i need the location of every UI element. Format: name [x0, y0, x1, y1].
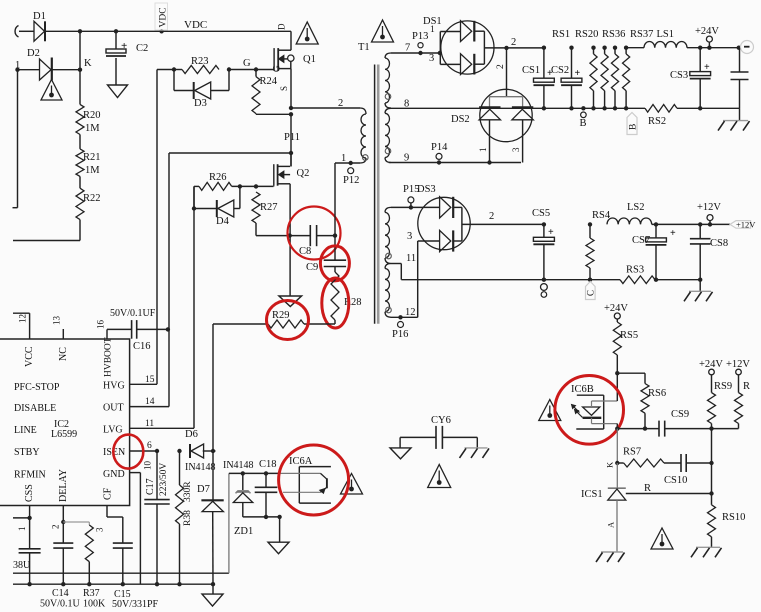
ground left of CY6: [399, 437, 401, 448]
wire ISEN branch riser x=229: [228, 473, 230, 573]
svg-text:100K: 100K: [83, 599, 106, 610]
net tag +24V right (clipped): [737, 46, 741, 50]
pin 2 DELAY: [62, 506, 64, 523]
svg-text:+: +: [670, 228, 676, 239]
capacitor C16 50V/0.1UF: [131, 320, 133, 339]
svg-text:K: K: [605, 461, 615, 468]
svg-text:CSS: CSS: [24, 484, 35, 502]
diode D3 (parallel R23): [173, 70, 175, 91]
svg-text:RS9: RS9: [714, 381, 732, 392]
svg-text:T1: T1: [358, 42, 370, 53]
resistor R37 100K: [88, 522, 90, 525]
svg-text:ICS1: ICS1: [581, 489, 603, 500]
ground triangle below rail: [212, 584, 214, 594]
svg-text:+12V: +12V: [726, 359, 750, 370]
svg-text:R38: R38: [183, 510, 193, 526]
resistor R26: [194, 185, 199, 187]
svg-text:CS5: CS5: [532, 208, 550, 219]
svg-text:11: 11: [145, 419, 154, 429]
node G: [254, 67, 258, 71]
svg-text:R23: R23: [191, 56, 209, 67]
svg-text:RS6: RS6: [648, 388, 666, 399]
resistor RS36: [613, 46, 617, 50]
capacitor C9: [324, 259, 346, 261]
resistor RS3 on return rail: [620, 276, 655, 284]
resistor RS7: [617, 462, 623, 464]
ground at top right rail: [739, 108, 741, 120]
resistor R24: [255, 70, 257, 77]
wire 2 to primary: [291, 107, 360, 109]
test point below CS5: [541, 284, 548, 291]
wire to RS6: [617, 372, 645, 374]
svg-text:B: B: [580, 118, 587, 129]
svg-text:DS3: DS3: [417, 184, 436, 195]
wire node1 row / D2 anode: [16, 69, 40, 71]
svg-text:VCC: VCC: [24, 346, 35, 367]
wire pin3 row to DS3: [391, 206, 440, 208]
secondary winding 8-9 of T1: [385, 108, 391, 113]
svg-text:GND: GND: [103, 469, 125, 480]
pin 16 HVBOOT: [106, 329, 108, 339]
resistor RS8: [736, 369, 742, 375]
svg-text:R: R: [743, 381, 750, 392]
resistor RS2 on B rail: [645, 105, 677, 113]
wire primary pin1 row: [335, 162, 360, 164]
wire R26 to Q2 gate: [232, 185, 256, 187]
wire pin1 riser to C8/C9: [334, 163, 336, 236]
diode D7: [212, 451, 214, 500]
svg-text:C: C: [586, 290, 596, 296]
svg-text:15: 15: [145, 375, 155, 385]
svg-text:3: 3: [429, 53, 434, 64]
ground below C18: [279, 517, 281, 542]
svg-text:1: 1: [478, 148, 488, 153]
warning triangle bottom right: [651, 528, 673, 549]
svg-text:+24V: +24V: [699, 359, 723, 370]
wire pin12 row: [391, 316, 418, 318]
red circle around C8: [288, 207, 341, 260]
svg-text:B: B: [629, 124, 639, 130]
wire RS9 node down: [711, 429, 713, 505]
transistor Q2 (MOSFET): [290, 153, 292, 166]
node 2 (secondary rectified +24V input): [504, 46, 508, 50]
wire pin9 row: [389, 162, 521, 164]
wire R22 bottom stub: [79, 220, 81, 241]
warning triangle below CY6: [428, 465, 451, 488]
resistor RS1: [591, 46, 595, 50]
svg-text:RS10: RS10: [722, 512, 745, 523]
dual diode DS2: [480, 89, 532, 141]
svg-text:ZD1: ZD1: [234, 526, 253, 537]
svg-text:38U: 38U: [13, 560, 31, 571]
resistor RS10: [708, 505, 716, 537]
svg-text:D2: D2: [27, 48, 40, 59]
return rail pin11 to C node: [401, 279, 620, 281]
svg-text:C9: C9: [306, 262, 318, 273]
svg-text:IC6B: IC6B: [571, 384, 594, 395]
wire G to Q1 gate: [256, 69, 274, 71]
net tag B boxed: [627, 113, 637, 135]
capacitor C8: [309, 225, 311, 246]
svg-text:DISABLE: DISABLE: [14, 403, 56, 414]
wire ZD1/C18 row: [229, 472, 280, 474]
red ellipse around ISEN: [113, 435, 143, 469]
svg-text:3: 3: [511, 147, 521, 152]
svg-text:D7: D7: [197, 484, 210, 495]
svg-text:+24V: +24V: [604, 303, 628, 314]
node IC6B emitter row: [615, 426, 619, 430]
node junction top rail / R20 branch: [78, 29, 82, 33]
svg-text:6: 6: [147, 441, 152, 451]
svg-text:R20: R20: [83, 110, 101, 121]
svg-text:Q2: Q2: [297, 168, 310, 179]
svg-text:P13: P13: [412, 31, 428, 42]
wire R23 left junction: [157, 69, 174, 71]
svg-text:R: R: [644, 483, 651, 494]
wire node2 to output caps: [507, 47, 544, 49]
wire pin11 jog: [391, 263, 401, 265]
red ellipse around C9: [320, 246, 349, 281]
node CS10 right: [709, 461, 713, 465]
svg-text:CS9: CS9: [671, 409, 689, 420]
svg-text:IC6A: IC6A: [289, 456, 313, 467]
pin 3 CF: [106, 506, 108, 518]
ground below C2: [108, 85, 128, 98]
net tag C boxed: [586, 282, 596, 300]
zener ZD1 IN4148: [242, 473, 244, 491]
test point P15: [408, 197, 414, 203]
svg-text:VDC: VDC: [184, 19, 207, 31]
svg-text:CS2: CS2: [551, 65, 569, 76]
node B terminal: [581, 106, 585, 110]
capacitor C15 50V/331PF: [113, 542, 133, 544]
svg-text:1M: 1M: [85, 165, 100, 176]
pin 6 ISEN: [130, 450, 157, 452]
svg-text:50V/0.1UF: 50V/0.1UF: [110, 308, 156, 319]
wire DS3 lower input riser: [417, 241, 419, 317]
svg-text:RS4: RS4: [592, 210, 611, 221]
svg-text:LS2: LS2: [627, 202, 645, 213]
wire pin7 row: [391, 52, 440, 54]
svg-text:RS37: RS37: [630, 29, 653, 40]
svg-text:RS7: RS7: [623, 447, 641, 458]
svg-text:+: +: [575, 68, 581, 79]
svg-text:C2: C2: [136, 43, 148, 54]
svg-text:HVBOOT: HVBOOT: [104, 337, 114, 377]
pin 11 LVG: [130, 427, 194, 429]
capacitor C14 50V/0.1U: [62, 522, 64, 543]
svg-text:2: 2: [511, 37, 516, 48]
svg-text:RS1: RS1: [552, 29, 570, 40]
resistor R28: [331, 272, 339, 320]
svg-text:11: 11: [406, 253, 416, 264]
svg-text:1: 1: [17, 527, 27, 532]
node RS7 row K: [615, 461, 619, 465]
svg-text:CS8: CS8: [710, 238, 728, 249]
diode D4 (parallel R26): [193, 186, 195, 208]
svg-text:Q1: Q1: [303, 54, 316, 65]
red circle around IC6B: [555, 376, 624, 445]
node D6 right / R29 riser: [211, 449, 215, 453]
red ellipse around R28: [322, 278, 349, 328]
transistor Q1 (MOSFET): [290, 31, 292, 50]
wire HVG riser x=157: [156, 70, 158, 385]
svg-text:LINE: LINE: [14, 425, 37, 436]
svg-text:1M: 1M: [85, 123, 100, 134]
svg-text:A: A: [606, 521, 616, 528]
resistor RS5: [616, 319, 618, 322]
svg-text:D1: D1: [33, 11, 46, 22]
svg-text:CS3: CS3: [670, 70, 688, 81]
capacitor CS8: [698, 222, 702, 226]
wire D1 to Q1 drain corner (VDC rail): [46, 30, 292, 32]
svg-text:1: 1: [15, 60, 20, 71]
svg-text:STBY: STBY: [14, 447, 40, 458]
svg-text:+: +: [548, 227, 554, 238]
svg-text:LS1: LS1: [657, 29, 675, 40]
svg-text:+: +: [704, 62, 710, 73]
svg-text:C16: C16: [133, 341, 151, 352]
node CS9/RS9: [709, 426, 713, 430]
wire IC6B to TL431 cathode: [616, 429, 618, 463]
capacitor CS10: [680, 454, 682, 472]
svg-text:R22: R22: [83, 193, 101, 204]
primary winding of T1: [360, 108, 366, 114]
svg-text:L6599: L6599: [51, 429, 77, 440]
svg-text:LVG: LVG: [103, 425, 123, 436]
resistor RS37: [624, 46, 628, 50]
resistor R27: [252, 192, 260, 223]
diode D1: [34, 21, 45, 41]
svg-text:+24V: +24V: [695, 26, 719, 37]
pin 10 GND: [130, 472, 141, 474]
connector J1 input arc: [15, 26, 18, 38]
resistor RS20: [602, 46, 606, 50]
svg-text:3: 3: [95, 527, 105, 532]
resistor R23: [174, 69, 182, 71]
resistor R29: [213, 323, 268, 325]
wire HVBOOT tap: [169, 152, 291, 154]
pin 13 NC: [62, 329, 64, 339]
resistor RS9: [709, 369, 715, 375]
inductor LS1: [644, 42, 687, 48]
red circle around IC6A: [279, 445, 349, 515]
warning triangle near Q1: [296, 22, 318, 44]
wire top rail to K: [79, 31, 81, 69]
test point P13: [418, 43, 423, 48]
svg-text:R24: R24: [260, 76, 278, 87]
svg-text:50V/0.1U: 50V/0.1U: [40, 599, 81, 610]
svg-text:C14: C14: [52, 588, 69, 599]
svg-text:D: D: [277, 23, 287, 30]
wire P11 half-bridge mid: [290, 114, 292, 166]
svg-text:+: +: [121, 40, 127, 52]
svg-text:D6: D6: [185, 429, 198, 440]
wire R27 bottom to C8 row: [255, 223, 257, 236]
svg-text:D4: D4: [216, 216, 230, 227]
svg-text:1: 1: [430, 25, 435, 35]
capacitor C18: [265, 473, 267, 487]
warning triangle below D2: [41, 80, 62, 101]
wire R29 left riser to ISEN: [212, 324, 214, 451]
svg-text:RS2: RS2: [648, 116, 666, 127]
pin 1 CSS: [29, 506, 31, 518]
arrow to R29 row: [279, 296, 302, 307]
node Q2 source / C8 row: [288, 233, 292, 237]
svg-text:P14: P14: [431, 142, 448, 153]
wire R24 bottom to source node: [255, 113, 257, 116]
IC2 L6599 body: [0, 339, 130, 506]
svg-text:R37: R37: [83, 588, 100, 599]
inductor LS2: [607, 218, 652, 224]
ground below RS10: [696, 546, 720, 548]
node junction top rail / C2: [114, 29, 118, 33]
svg-text:HVG: HVG: [103, 381, 125, 392]
svg-text:CS1: CS1: [522, 65, 540, 76]
transformer T1 core: [374, 65, 376, 324]
wire C18 bottom row: [243, 516, 280, 518]
svg-text:DELAY: DELAY: [58, 469, 69, 502]
svg-text:IN4148: IN4148: [223, 460, 254, 471]
node DELAY: [61, 520, 65, 524]
svg-text:P11: P11: [284, 132, 300, 143]
pin 12 VCC: [29, 313, 31, 339]
svg-text:+12V: +12V: [697, 202, 721, 213]
node Q1 source / primary pin2: [289, 106, 293, 110]
wire Q2 source down: [289, 184, 291, 296]
node C16 right / OUT riser: [166, 327, 170, 331]
svg-text:16: 16: [96, 320, 106, 330]
warning triangle left of IC6B: [539, 400, 561, 421]
svg-text:14: 14: [145, 397, 155, 407]
pin 15 HVG: [130, 383, 157, 385]
svg-text:223/50V: 223/50V: [159, 463, 169, 496]
ground below CS8: [699, 280, 701, 292]
resistor RS6: [644, 373, 646, 383]
shunt regulator ICS1 (TL431): [616, 463, 618, 488]
svg-text:K: K: [84, 58, 92, 69]
svg-text:OUT: OUT: [103, 403, 124, 414]
svg-text:RS36: RS36: [602, 29, 625, 40]
svg-text:RS3: RS3: [626, 265, 644, 276]
svg-text:2: 2: [496, 64, 506, 69]
capacitor C2 (electrolytic): [115, 31, 117, 49]
svg-text:9: 9: [404, 153, 409, 164]
svg-text:R29: R29: [272, 310, 290, 321]
node K: [78, 68, 82, 72]
terminal +24V lower: [614, 313, 620, 319]
svg-text:RS5: RS5: [620, 330, 638, 341]
svg-text:IN4148: IN4148: [185, 462, 216, 473]
dual diode DS3: [418, 197, 470, 249]
svg-text:8: 8: [404, 99, 409, 110]
svg-text:DS2: DS2: [451, 114, 470, 125]
red ellipse around R29: [267, 301, 309, 340]
wire CSS node: [27, 516, 31, 520]
capacitor CS3 (electrolytic): [698, 46, 702, 50]
resistor R21 1M: [79, 135, 81, 149]
capacitor CS2 (electrolytic): [569, 46, 573, 50]
secondary winding 11-12 of T1: [385, 264, 391, 269]
svg-text:C17: C17: [145, 478, 156, 495]
svg-text:CY6: CY6: [431, 415, 451, 426]
svg-text:P12: P12: [343, 175, 359, 186]
svg-text:2: 2: [51, 525, 61, 530]
svg-text:NC: NC: [58, 347, 69, 361]
wire node2 down to DS2: [506, 48, 508, 97]
node C8 right on pin1 riser: [333, 233, 337, 237]
svg-text:1: 1: [341, 153, 346, 164]
test point P14: [436, 153, 442, 159]
wire input to D1: [19, 30, 34, 32]
resistor R38 330R: [177, 449, 181, 453]
svg-text:2: 2: [489, 211, 494, 222]
wire D2 to node K: [53, 69, 81, 71]
svg-text:50V/331PF: 50V/331PF: [112, 599, 159, 610]
diode D6 IN4148: [189, 444, 191, 458]
wire pin8 row to output rail B: [391, 107, 645, 109]
capacitor CS1 (electrolytic): [542, 46, 546, 50]
capacitor CS9: [658, 421, 660, 437]
svg-text:12: 12: [18, 314, 28, 323]
capacitor CS5 (electrolytic): [542, 222, 546, 226]
terminal +12V: [707, 215, 713, 221]
svg-text:CS10: CS10: [664, 475, 687, 486]
resistor RS4: [588, 222, 592, 226]
dual diode DS1: [441, 21, 494, 74]
wire R reference: [626, 493, 712, 495]
ground below ICS1: [601, 551, 623, 553]
svg-text:R21: R21: [83, 152, 101, 163]
svg-text:10: 10: [143, 461, 153, 471]
secondary winding 3-11 of T1: [385, 207, 391, 212]
capacitor CS4: [739, 48, 741, 72]
svg-text:S: S: [279, 86, 289, 91]
svg-text:G: G: [272, 65, 282, 72]
resistor R22: [79, 176, 81, 188]
wire node1 vertical stub: [17, 70, 19, 208]
capacitor CS7 (electrolytic): [654, 222, 658, 226]
svg-text:R26: R26: [209, 172, 227, 183]
svg-text:2: 2: [338, 98, 343, 109]
warning triangle right of IC6A: [341, 474, 363, 495]
svg-text:RFMIN: RFMIN: [14, 470, 46, 481]
svg-text:P16: P16: [392, 329, 408, 340]
svg-text:7: 7: [405, 43, 410, 54]
diode D2 with gate bar: [40, 59, 52, 80]
node VDC tag: [159, 29, 163, 33]
wire LVG riser x=194: [193, 186, 195, 428]
node RS5 bottom: [615, 371, 619, 375]
svg-text:13: 13: [52, 316, 62, 326]
ground rails at bottom: [13, 572, 229, 574]
resistor R20 1M: [79, 70, 81, 105]
svg-text:RS20: RS20: [575, 29, 598, 40]
test point P16: [398, 322, 404, 328]
pin 14 OUT: [130, 406, 169, 408]
svg-text:+12V: +12V: [736, 220, 756, 230]
test point P12: [348, 168, 354, 174]
wire DELAY to R37 (gray): [63, 521, 89, 523]
svg-text:R28: R28: [344, 297, 362, 308]
terminal +24V top: [706, 36, 712, 42]
capacitor C13 (38U): [29, 518, 31, 549]
svg-text:D3: D3: [194, 98, 207, 109]
warning triangle above T1: [372, 20, 394, 42]
svg-text:G: G: [243, 58, 251, 69]
svg-text:12: 12: [405, 307, 416, 318]
svg-text:C18: C18: [259, 459, 277, 470]
